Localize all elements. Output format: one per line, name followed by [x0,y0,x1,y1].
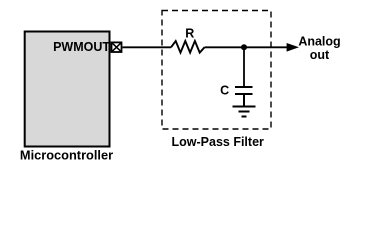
microcontroller box [25,32,110,147]
svg-text:C: C [220,84,229,98]
svg-text:Analog: Analog [298,35,340,49]
svg-text:Microcontroller: Microcontroller [20,148,113,163]
node junction dot [241,44,247,50]
capacitor C [235,87,253,106]
svg-text:PWMOUT: PWMOUT [53,40,110,54]
low-pass filter enclosure (dashed) [162,11,271,130]
label Analog out [298,35,340,63]
pin symbol (crossed square) [112,42,122,52]
wire: pin to resistor [123,46,172,48]
wire: resistor to arrow [205,46,289,48]
svg-text:R: R [185,26,194,40]
resistor R [171,41,205,53]
svg-text:out: out [310,48,330,62]
ground [233,107,256,117]
svg-text:Low-Pass Filter: Low-Pass Filter [172,135,265,149]
arrowhead [287,43,299,52]
wire: junction to capacitor [243,47,245,86]
